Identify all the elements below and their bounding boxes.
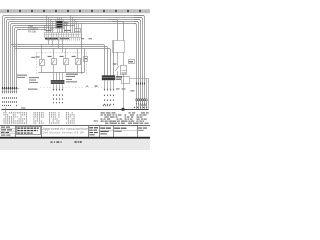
note text module [29, 77, 39, 78]
bus wire L7 with left corner bend [15, 28, 61, 89]
terminal ticks on risers [136, 83, 145, 85]
feed wire to B1 pin1 [112, 22, 124, 41]
cable W1 arrow heads [2, 90, 18, 94]
bus wire L2 with left corner bend [5, 18, 143, 89]
legend text block C [125, 112, 138, 123]
junction box B1 [113, 41, 125, 53]
smudge near feeders [81, 38, 84, 39]
revision table [0, 127, 15, 136]
bus stub [5, 107, 7, 112]
legend text block B [113, 114, 125, 123]
bus wire L1 with left corner bend [3, 16, 145, 89]
wire below CR1 [117, 71, 119, 77]
legend text block D [137, 112, 149, 123]
wire schedule column group A [4, 112, 16, 123]
tag above bus left [103, 105, 110, 107]
label above X2 [46, 30, 52, 31]
approval stamp [42, 127, 88, 135]
feeder wire N1 [11, 45, 105, 76]
cable W3 core labels [104, 95, 114, 105]
title block bottom border [0, 137, 150, 139]
label left of K1 [31, 57, 35, 58]
terminal strip X2 [45, 33, 82, 38]
junction dot [122, 108, 125, 111]
enclosure dashed boundary [36, 52, 86, 54]
viewer footer background [0, 139, 150, 150]
cable W2 with terminal hatch [51, 72, 65, 91]
bus tick mark [21, 107, 26, 110]
tag pair [116, 88, 120, 89]
scale cell [138, 128, 142, 129]
drawing number cell [99, 128, 137, 135]
contact CR1 [115, 66, 119, 71]
cable W1 core labels [2, 97, 17, 106]
title block frame [0, 126, 150, 137]
label below X2 [45, 38, 58, 40]
legend text block A [101, 112, 116, 123]
dashed link wire [40, 87, 104, 89]
drop wires from X2 [48, 37, 85, 74]
cable tag block right [116, 76, 122, 77]
junction marks at bus [134, 107, 147, 108]
bus wire L4 right corner drop [134, 22, 139, 110]
gland symbols on risers [136, 98, 148, 104]
bus wire L6 with left corner bend [13, 26, 76, 89]
feeder wire N2 [13, 47, 108, 76]
drawing title box [17, 127, 41, 135]
coil M1 [121, 66, 127, 75]
feed wire to B1 pin2 [108, 20, 118, 41]
rail wire below relays [39, 72, 85, 74]
relay contact K2 [52, 59, 57, 65]
feeder wire N4 [113, 41, 115, 76]
bottom bus wire PE [2, 109, 149, 111]
junction box B2 [122, 77, 130, 84]
sheet cell [114, 128, 120, 129]
auxiliary block A1 [45, 26, 49, 31]
bus wire L3 with left corner bend [7, 20, 141, 89]
relay contact K4 [76, 59, 81, 65]
svg-text:PS-186: PS-186 [28, 30, 37, 33]
cable W2 core labels [53, 94, 63, 103]
relay contact K3 [64, 59, 69, 65]
svg-text:Det Norske Veritas AS 04: Det Norske Veritas AS 04 [43, 130, 84, 134]
relay contact K1 [40, 60, 45, 66]
tag above bus right [140, 105, 148, 106]
bus wire L8 with left corner bend [17, 30, 47, 89]
device A2 [75, 29, 81, 32]
connector J1 (shaded) [56, 17, 64, 33]
label plate M1 [129, 60, 135, 64]
wire schedule column group B [17, 112, 27, 123]
drawn-checked block [89, 127, 98, 135]
note text J-MIL [28, 89, 38, 90]
bus wire L3 right corner drop [134, 20, 141, 110]
tag right risers [130, 90, 134, 91]
tap wires to terminal strip X2 [47, 15, 82, 33]
tag box K5 [84, 57, 88, 62]
label CR1 [113, 63, 117, 64]
footer page controls [51, 141, 82, 143]
bus wire L5 right corner drop [134, 24, 137, 110]
wire to right edge [130, 78, 148, 80]
wire schedule column group D [66, 112, 74, 123]
bus wire L2 right corner drop [134, 18, 143, 110]
wire from coil M1 [123, 75, 125, 110]
feeder wire N3 [15, 49, 111, 76]
wire to contact CR1 [117, 52, 119, 66]
riser wire R6 [146, 78, 148, 109]
label J1 text [64, 22, 69, 23]
cable W3 with terminal hatch [102, 75, 115, 91]
wire to coil M1 [123, 52, 125, 65]
column reference ruler bar [0, 9, 150, 13]
note text left [17, 75, 27, 76]
bus wire L1 right corner drop [134, 16, 145, 110]
wire schedule column group C [49, 112, 59, 123]
tag near dashed link [95, 86, 98, 87]
terminal strip X1 hatch row [2, 87, 20, 89]
bus wire L5 with left corner bend [11, 24, 137, 89]
mark E [94, 120, 96, 121]
note text right [66, 74, 78, 75]
wire schedule column group B2 [34, 112, 44, 123]
bus wire L4 with left corner bend [9, 22, 139, 89]
